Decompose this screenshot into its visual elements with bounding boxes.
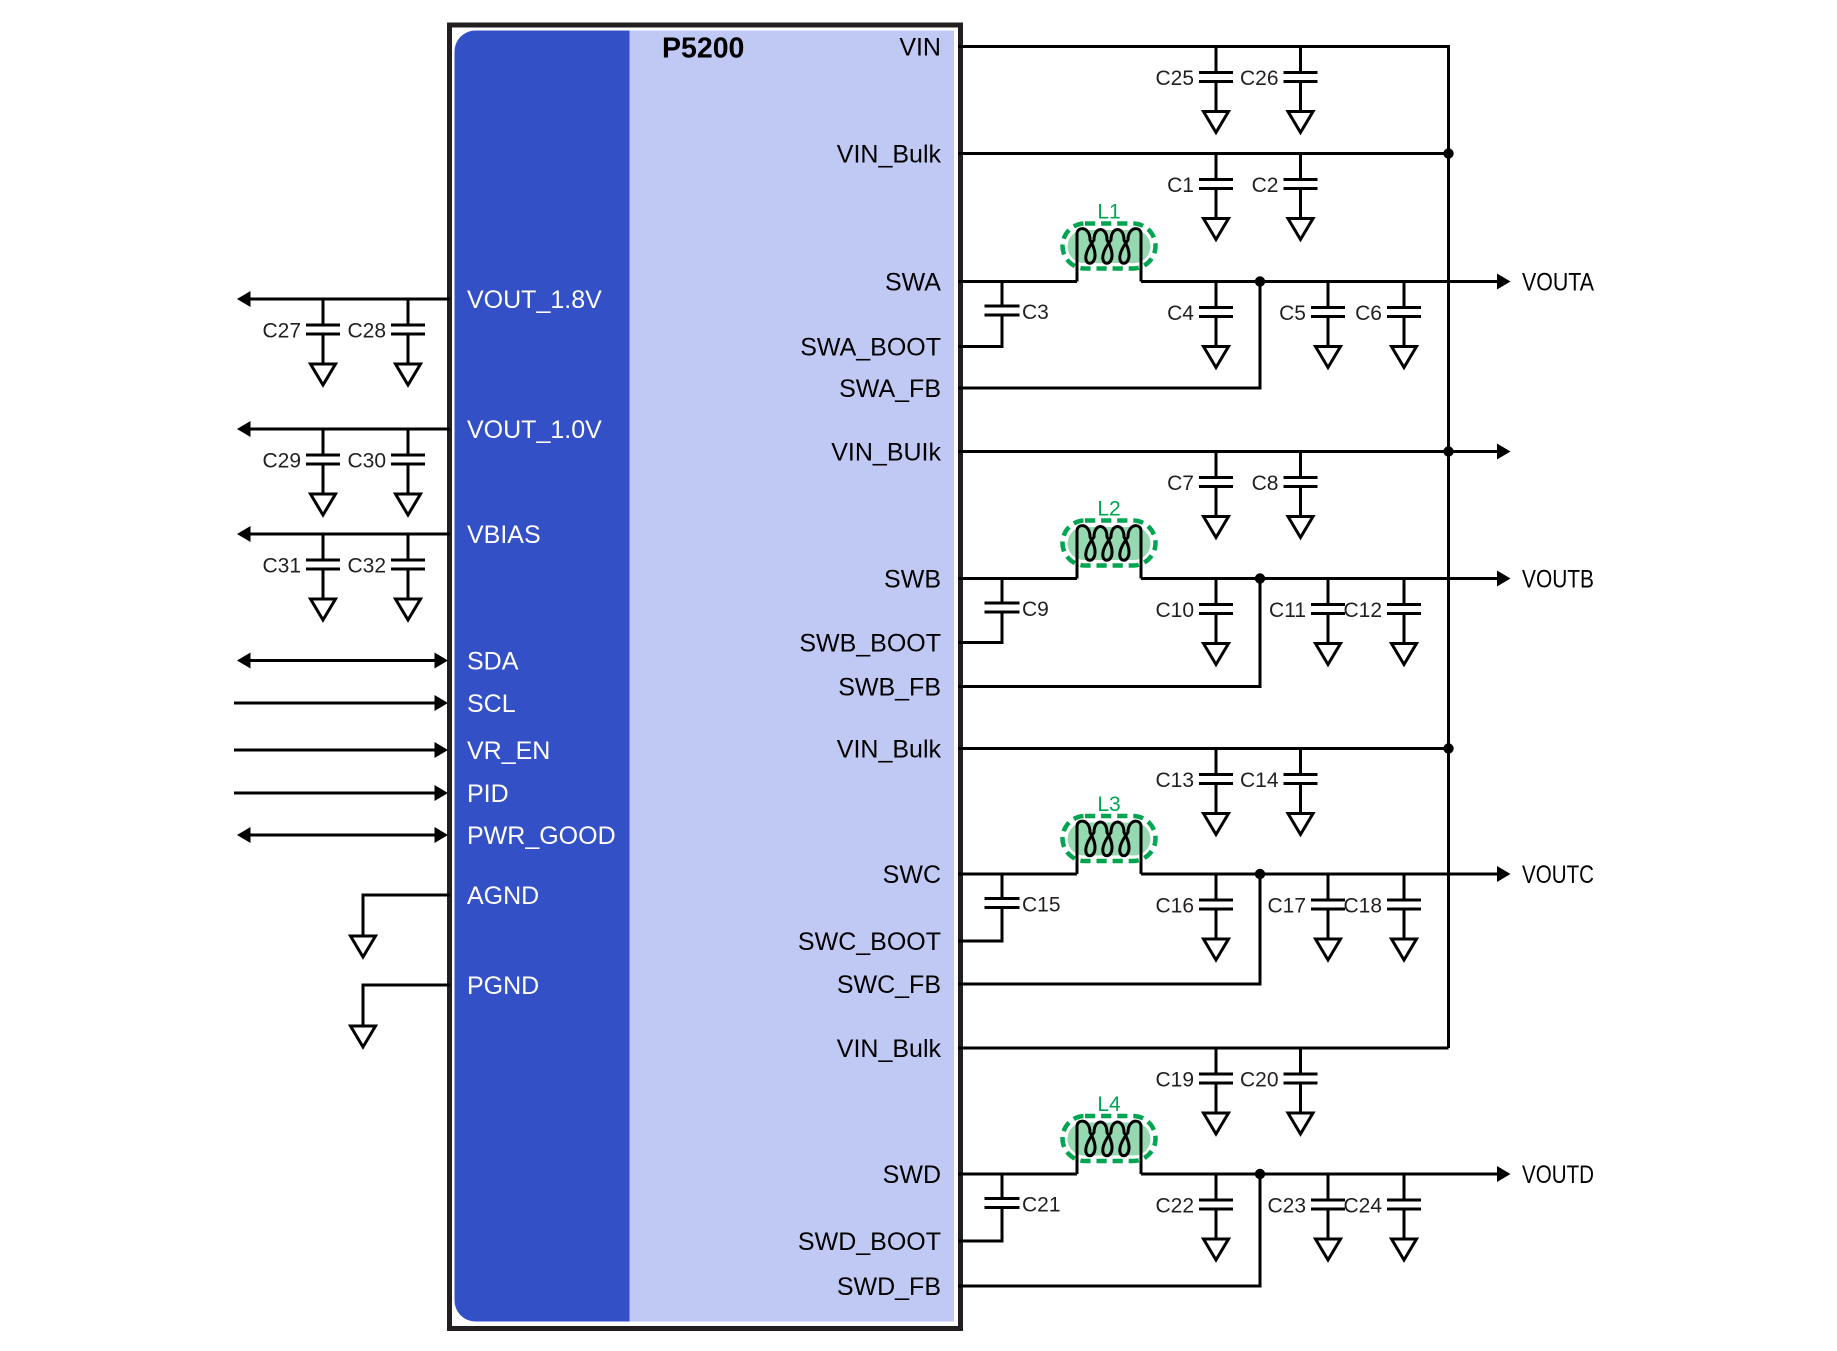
- svg-text:VIN_BUIk: VIN_BUIk: [831, 439, 941, 467]
- svg-text:C18: C18: [1343, 895, 1382, 918]
- capacitor C19: [1155, 1048, 1233, 1092]
- svg-text:C23: C23: [1267, 1195, 1306, 1218]
- capacitor C26: [1240, 47, 1318, 91]
- wire VIN bulk bus: [1447, 154, 1450, 1049]
- net VIN_Bulk row C wire: [958, 747, 1449, 750]
- capacitor C27: [262, 299, 340, 343]
- svg-text:C22: C22: [1155, 1195, 1194, 1218]
- svg-text:L1: L1: [1097, 201, 1120, 224]
- svg-text:PGND: PGND: [467, 972, 539, 1000]
- IC U1 P5200 outer border: [450, 25, 961, 1329]
- capacitor C13: [1155, 749, 1233, 793]
- junction VOUTA FB: [1255, 276, 1265, 286]
- net VIN_BUIk row B wire: [958, 450, 1449, 453]
- inductor L3: [1063, 793, 1156, 874]
- ground: [1215, 317, 1218, 347]
- svg-text:C26: C26: [1240, 67, 1279, 90]
- net A: SW wire: [958, 280, 1077, 283]
- capacitor C17: [1267, 874, 1345, 918]
- wire C FB: [958, 874, 1260, 984]
- capacitor C5: [1279, 282, 1345, 326]
- ground: [1299, 82, 1302, 112]
- net VIN_Bulk row A wire: [958, 152, 1449, 155]
- svg-text:VOUTB: VOUTB: [1522, 566, 1594, 594]
- wire AGND: [363, 895, 450, 906]
- capacitor C9: [958, 579, 1049, 643]
- svg-text:VOUTD: VOUTD: [1522, 1161, 1594, 1189]
- svg-text:VIN_Bulk: VIN_Bulk: [837, 1035, 942, 1063]
- IC U1 body light section: [455, 31, 955, 1322]
- ground: [1403, 1209, 1406, 1239]
- svg-text:VOUTA: VOUTA: [1522, 269, 1594, 297]
- ground: [1327, 909, 1330, 939]
- svg-text:SWB_BOOT: SWB_BOOT: [799, 630, 941, 658]
- net VIN_Bulk row D wire: [958, 1047, 1449, 1050]
- net PID wire: [234, 792, 435, 795]
- svg-text:C15: C15: [1022, 894, 1061, 917]
- capacitor C16: [1155, 874, 1233, 918]
- capacitor C6: [1355, 282, 1421, 326]
- net VOUT_1.0V wire: [243, 428, 450, 431]
- wire A FB: [958, 282, 1260, 389]
- svg-text:C21: C21: [1022, 1194, 1061, 1217]
- svg-text:C32: C32: [347, 555, 386, 578]
- svg-text:C12: C12: [1343, 599, 1382, 622]
- capacitor C30: [347, 429, 425, 473]
- capacitor C28: [347, 299, 425, 343]
- ground: [1299, 784, 1302, 814]
- wire VIN_BUIk stub arrow: [1449, 450, 1498, 453]
- svg-text:C3: C3: [1022, 301, 1049, 324]
- junction VOUTD FB: [1255, 1169, 1265, 1179]
- ground: [1327, 1209, 1330, 1239]
- svg-text:C25: C25: [1155, 67, 1194, 90]
- net VR_EN wire: [234, 749, 435, 752]
- inductor L2: [1063, 498, 1156, 579]
- ground: [1215, 1083, 1218, 1113]
- ground: [1215, 189, 1218, 219]
- svg-text:C31: C31: [262, 555, 301, 578]
- net VOUTA wire: [1141, 280, 1497, 283]
- svg-text:VIN_Bulk: VIN_Bulk: [837, 736, 942, 764]
- ground: [1299, 189, 1302, 219]
- net VOUTD wire: [1141, 1173, 1497, 1176]
- svg-text:L4: L4: [1097, 1093, 1121, 1116]
- svg-text:VOUT_1.8V: VOUT_1.8V: [467, 286, 602, 314]
- capacitor C1: [1167, 154, 1233, 198]
- svg-text:C10: C10: [1155, 599, 1194, 622]
- ground: [1403, 614, 1406, 644]
- svg-text:SWC_BOOT: SWC_BOOT: [798, 928, 941, 956]
- ground: [322, 334, 325, 364]
- net VBIAS wire: [243, 533, 450, 536]
- svg-text:C11: C11: [1269, 599, 1306, 622]
- ground: [1215, 82, 1218, 112]
- junction VIN bus row B: [1443, 446, 1453, 456]
- ground: [1327, 614, 1330, 644]
- net VOUTB wire: [1141, 577, 1497, 580]
- svg-text:C7: C7: [1167, 472, 1194, 495]
- svg-text:C28: C28: [347, 320, 386, 343]
- svg-text:SWA_FB: SWA_FB: [839, 375, 941, 403]
- net VOUTC wire: [1141, 873, 1497, 876]
- junction VIN bus row C: [1443, 743, 1453, 753]
- capacitor C22: [1155, 1174, 1233, 1218]
- svg-text:C8: C8: [1252, 472, 1279, 495]
- svg-text:SWC: SWC: [883, 861, 941, 889]
- capacitor C2: [1252, 154, 1318, 198]
- capacitor C21: [958, 1174, 1061, 1241]
- capacitor C15: [958, 874, 1061, 941]
- capacitor C4: [1167, 282, 1233, 326]
- ground: [322, 464, 325, 494]
- ground: [362, 996, 365, 1026]
- net VIN wire: [958, 47, 1449, 154]
- inductor L1: [1063, 201, 1156, 282]
- svg-text:VBIAS: VBIAS: [467, 521, 541, 549]
- wire PGND: [363, 985, 450, 996]
- capacitor C32: [347, 534, 425, 578]
- capacitor C11: [1269, 579, 1345, 623]
- ground: [1327, 317, 1330, 347]
- ground: [1215, 784, 1218, 814]
- ground: [1403, 909, 1406, 939]
- svg-text:PID: PID: [467, 780, 509, 808]
- capacitor C14: [1240, 749, 1318, 793]
- capacitor C24: [1343, 1174, 1421, 1218]
- svg-text:C5: C5: [1279, 302, 1306, 325]
- svg-text:C4: C4: [1167, 302, 1194, 325]
- ground: [362, 906, 365, 936]
- capacitor C10: [1155, 579, 1233, 623]
- ground: [407, 334, 410, 364]
- svg-text:SWC_FB: SWC_FB: [837, 971, 941, 999]
- svg-text:SWD_FB: SWD_FB: [837, 1273, 941, 1301]
- ground: [1299, 1083, 1302, 1113]
- svg-text:C24: C24: [1343, 1195, 1382, 1218]
- capacitor C29: [262, 429, 340, 473]
- ground: [1215, 614, 1218, 644]
- IC U1 body dark section: [455, 31, 630, 1322]
- svg-text:C16: C16: [1155, 895, 1194, 918]
- svg-text:C14: C14: [1240, 769, 1279, 792]
- ground: [1299, 487, 1302, 517]
- svg-text:C27: C27: [262, 320, 301, 343]
- svg-text:VOUT_1.0V: VOUT_1.0V: [467, 416, 602, 444]
- ground: [1403, 317, 1406, 347]
- svg-text:C9: C9: [1022, 598, 1049, 621]
- svg-text:VR_EN: VR_EN: [467, 737, 550, 765]
- capacitor C31: [262, 534, 340, 578]
- svg-text:SWD: SWD: [883, 1161, 941, 1189]
- wire B FB: [958, 579, 1260, 687]
- svg-text:SDA: SDA: [467, 648, 519, 676]
- net VOUT_1.8V wire: [243, 298, 450, 301]
- svg-text:SWA_BOOT: SWA_BOOT: [800, 334, 941, 362]
- svg-text:C13: C13: [1155, 769, 1194, 792]
- ground: [1215, 909, 1218, 939]
- net B: SW wire: [958, 577, 1077, 580]
- wire D FB: [958, 1174, 1260, 1286]
- svg-text:C6: C6: [1355, 302, 1382, 325]
- svg-text:SWA: SWA: [885, 269, 941, 297]
- svg-text:C19: C19: [1155, 1069, 1194, 1092]
- capacitor C23: [1267, 1174, 1345, 1218]
- capacitor C18: [1343, 874, 1421, 918]
- capacitor C3: [958, 282, 1049, 347]
- svg-text:SWD_BOOT: SWD_BOOT: [798, 1228, 941, 1256]
- svg-text:L3: L3: [1097, 793, 1120, 816]
- net SCL wire: [234, 702, 435, 705]
- capacitor C7: [1167, 452, 1233, 496]
- net SDA wire: [243, 659, 435, 662]
- ground: [407, 464, 410, 494]
- svg-text:C30: C30: [347, 450, 386, 473]
- svg-text:SWB: SWB: [884, 566, 941, 594]
- capacitor C25: [1155, 47, 1233, 91]
- ground: [322, 569, 325, 599]
- svg-text:VOUTC: VOUTC: [1522, 861, 1594, 889]
- junction VOUTB FB: [1255, 573, 1265, 583]
- junction VOUTC FB: [1255, 869, 1265, 879]
- svg-text:C17: C17: [1267, 895, 1306, 918]
- ground: [407, 569, 410, 599]
- svg-text:C29: C29: [262, 450, 301, 473]
- svg-text:VIN_Bulk: VIN_Bulk: [837, 141, 942, 169]
- net D: SW wire: [958, 1173, 1077, 1176]
- ground: [1215, 487, 1218, 517]
- svg-text:SCL: SCL: [467, 690, 516, 718]
- svg-text:PWR_GOOD: PWR_GOOD: [467, 822, 616, 850]
- svg-text:SWB_FB: SWB_FB: [838, 674, 941, 702]
- capacitor C12: [1343, 579, 1421, 623]
- ground: [1215, 1209, 1218, 1239]
- svg-text:C2: C2: [1252, 174, 1279, 197]
- inductor L4: [1063, 1093, 1156, 1174]
- net C: SW wire: [958, 873, 1077, 876]
- svg-text:C1: C1: [1167, 174, 1194, 197]
- svg-text:P5200: P5200: [662, 33, 744, 65]
- svg-text:C20: C20: [1240, 1069, 1279, 1092]
- capacitor C20: [1240, 1048, 1318, 1092]
- svg-text:VIN: VIN: [899, 34, 941, 62]
- junction VIN bus row A: [1443, 148, 1453, 158]
- svg-text:L2: L2: [1097, 498, 1120, 521]
- capacitor C8: [1252, 452, 1318, 496]
- svg-text:AGND: AGND: [467, 882, 539, 910]
- net PWR_GOOD wire: [243, 834, 435, 837]
